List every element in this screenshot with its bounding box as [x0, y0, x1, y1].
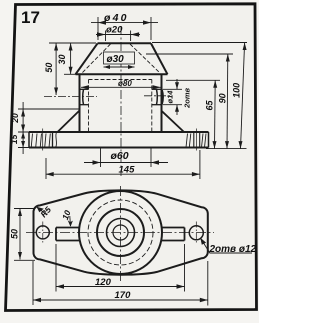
svg-text:17: 17 [21, 8, 40, 27]
hidden inner cone left [82, 44, 111, 73]
hidden hole line right [151, 80, 153, 132]
svg-text:30: 30 [57, 54, 67, 64]
rib left [58, 111, 80, 133]
svg-text:50: 50 [44, 63, 54, 73]
plan centerline vertical [120, 186, 122, 283]
side hole right wall arc [156, 89, 159, 104]
svg-text:100: 100 [231, 83, 241, 98]
2otv o12 leader [200, 238, 252, 253]
right flange hole edges [193, 133, 195, 147]
flange top [29, 131, 209, 133]
dim o20 top [106, 31, 131, 42]
body right edge [161, 74, 163, 132]
dashed circle [88, 200, 153, 265]
svg-text:170: 170 [115, 290, 132, 301]
boss circle mid [97, 209, 144, 256]
svg-text:ø20: ø20 [106, 24, 123, 35]
right flange hatch [186, 134, 206, 147]
side hole right bottom [152, 104, 162, 106]
dim 145 [46, 150, 200, 179]
dim 120 [56, 244, 185, 292]
cone left slope [76, 43, 98, 74]
side hole left wall arc [82, 89, 85, 104]
frame border [6, 4, 257, 311]
svg-text:ø80: ø80 [118, 79, 132, 88]
hidden hole line left [88, 80, 90, 132]
dimension o80 line [81, 86, 161, 88]
flange bottom [29, 147, 209, 149]
side hole centerline left [44, 96, 97, 98]
svg-text:ø40: ø40 [104, 12, 129, 24]
left flange hole edges [52, 133, 54, 147]
dim 30 left [70, 43, 72, 74]
R5 leader [37, 207, 48, 215]
boss circle inner [107, 219, 135, 247]
svg-text:15: 15 [9, 134, 19, 144]
side hole right top [152, 88, 162, 90]
right hole centerline v [195, 222, 197, 245]
svg-text:120: 120 [95, 277, 112, 288]
svg-text:ø30: ø30 [107, 54, 125, 65]
svg-text:145: 145 [119, 165, 136, 176]
centerline front view [120, 26, 122, 176]
dim o14 right [163, 89, 182, 104]
hidden line horizontal hole top [89, 79, 152, 81]
dim 65 90 100 right [146, 43, 247, 149]
dim o60 [101, 148, 152, 167]
svg-text:ø60: ø60 [111, 150, 129, 162]
arrow o80 right [153, 85, 161, 89]
hole circle small [113, 225, 128, 240]
svg-text:2отв: 2отв [182, 87, 191, 108]
hidden inner cone right [130, 44, 160, 73]
boss circle outer [79, 191, 162, 274]
rib right plan [162, 228, 185, 241]
flange left edge [28, 132, 30, 148]
svg-text:20: 20 [10, 113, 20, 124]
left flange hatch [31, 133, 56, 147]
svg-text:65: 65 [205, 100, 215, 111]
dim o30 box [104, 52, 135, 64]
dim o40 [98, 17, 151, 40]
left hole centerline v [42, 222, 44, 244]
cone right slope [151, 43, 168, 74]
dim 170 [33, 261, 208, 306]
dim 20 left lower [18, 109, 79, 148]
svg-text:2отв ø12: 2отв ø12 [209, 244, 257, 255]
arrow o80 left [81, 85, 89, 89]
shoulder line [76, 73, 168, 75]
side hole right outer arc [162, 89, 163, 104]
right hole [189, 226, 203, 240]
rib right [162, 111, 185, 132]
body left edge [79, 74, 81, 132]
rib left plan [56, 228, 80, 241]
left flange hole centerline [42, 129, 44, 151]
side hole left top [80, 88, 89, 90]
flange right edge [208, 132, 210, 148]
dim 15 left [21, 132, 25, 139]
dim 50 left [49, 42, 96, 44]
svg-text:ø14: ø14 [165, 90, 174, 104]
dim 50 plan [14, 209, 35, 261]
cone top edge [98, 42, 152, 44]
side hole left bottom [80, 104, 89, 106]
dim 10 leader [69, 216, 72, 226]
plan centerline horizontal [26, 232, 214, 234]
svg-text:90: 90 [218, 93, 228, 103]
plate outline [34, 190, 208, 274]
right flange hole centerline [196, 129, 198, 151]
side hole centerline right [144, 95, 172, 97]
svg-text:50: 50 [10, 229, 20, 239]
left hole [36, 226, 49, 239]
